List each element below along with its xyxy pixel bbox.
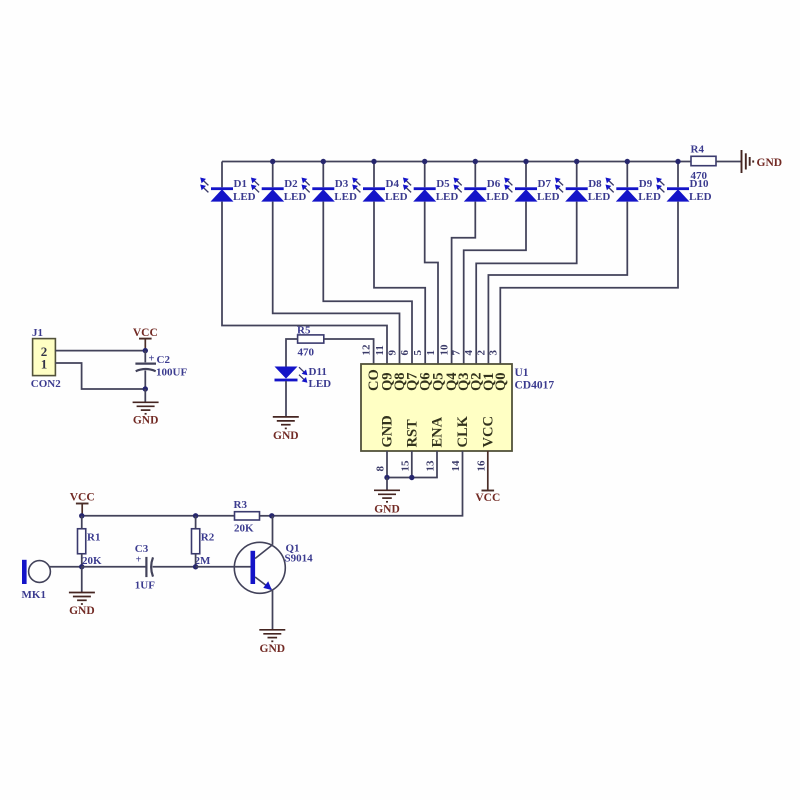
LED D5 (403, 162, 436, 202)
wire (D4 anode to U1 pin 5) (374, 202, 425, 364)
op IC U1 CD4017 (361, 364, 512, 451)
svg-text:GND: GND (273, 430, 299, 442)
microphone MK1 (22, 560, 27, 584)
LED D9 (606, 162, 639, 202)
svg-text:C3: C3 (135, 543, 149, 555)
svg-text:GND: GND (69, 605, 95, 617)
LED D6 (454, 162, 487, 202)
LED D3 (302, 162, 335, 202)
svg-text:LED: LED (689, 191, 712, 203)
node (rail junction D10) (675, 159, 680, 164)
ground (top right, sideways) (742, 150, 754, 173)
svg-text:Q0: Q0 (493, 372, 509, 391)
node (rail junction D3) (321, 159, 326, 164)
wire (VCC node to C2) (144, 351, 146, 363)
resistor R3 (235, 512, 260, 520)
resistor R1 (78, 529, 86, 554)
node (rail junction D9) (625, 159, 630, 164)
resistor R4 (691, 156, 716, 165)
svg-text:1: 1 (41, 357, 48, 372)
ground (mic bias) (81, 567, 83, 593)
LED D8 (555, 162, 588, 202)
node B (C2-/J1 pin1) (143, 386, 148, 391)
svg-text:RST: RST (404, 419, 420, 448)
node (rail junction D7) (523, 159, 528, 164)
svg-text:LED: LED (638, 191, 661, 203)
resistor R2 (192, 529, 200, 554)
wire (pin 13 to pin 8 tie) (387, 451, 437, 478)
wire (D5 anode to U1 pin 1) (425, 202, 438, 364)
LED D1 (200, 162, 233, 202)
svg-text:VCC: VCC (475, 492, 500, 504)
LED D7 (504, 162, 537, 202)
svg-text:ENA: ENA (430, 416, 446, 447)
svg-text:11: 11 (374, 345, 386, 355)
wire (D6 anode to U1 pin 10) (452, 202, 476, 364)
wire (C3 to R2 node) (153, 566, 196, 568)
wire (D3 anode to U1 pin 6) (323, 202, 412, 364)
power VCC (pin 16) (487, 451, 489, 491)
svg-text:D3: D3 (335, 178, 349, 190)
svg-text:VCC: VCC (70, 491, 95, 503)
svg-text:GND: GND (380, 415, 396, 447)
power VCC (bias rail) (76, 503, 89, 505)
svg-text:S9014: S9014 (285, 552, 314, 564)
node (rail junction D4) (371, 159, 376, 164)
node A (VCC/C2+) (143, 348, 148, 353)
ground (D11) (273, 417, 299, 429)
wire (R4 to GND) (716, 161, 741, 163)
svg-text:D9: D9 (639, 178, 653, 190)
wire (R1 to signal) (81, 554, 83, 567)
wire (R5 to D11) (286, 339, 298, 367)
svg-text:7: 7 (451, 350, 463, 356)
wire (R5 to U1 pin 12) (324, 339, 374, 364)
svg-text:3: 3 (487, 350, 499, 356)
wire (to C3) (82, 566, 146, 568)
svg-text:LED: LED (588, 191, 611, 203)
wire (D10 anode to U1 pin 3) (500, 202, 678, 364)
svg-text:10: 10 (439, 344, 451, 356)
svg-text:+: + (136, 555, 142, 566)
node (rail junction D5) (422, 159, 427, 164)
svg-text:R1: R1 (87, 531, 100, 543)
wire (R2 to signal) (195, 554, 197, 567)
node (pin 8 junction) (384, 475, 389, 480)
svg-text:D2: D2 (284, 178, 298, 190)
ground (C2) (133, 402, 159, 414)
node (R1/mic junction) (79, 564, 84, 569)
svg-text:470: 470 (298, 347, 315, 359)
svg-text:CD4017: CD4017 (515, 380, 555, 392)
svg-text:GND: GND (133, 414, 159, 426)
wire (MK1 to R1 node) (49, 566, 81, 568)
wire (D7 anode to U1 pin 7) (464, 202, 526, 364)
wire (J1 pin1 to C2 bottom) (55, 363, 145, 389)
svg-text:R4: R4 (691, 144, 705, 156)
node (collector junction) (269, 513, 274, 518)
svg-text:LED: LED (486, 191, 509, 203)
node (pin 15 junction) (409, 475, 414, 480)
wire (LED cathode rail) (222, 161, 691, 163)
wire (D1 anode to U1 pin 11) (222, 202, 387, 364)
power VCC (J1) (139, 338, 152, 340)
node (rail/R2) (193, 513, 198, 518)
LED D2 (251, 162, 284, 202)
svg-text:D5: D5 (436, 178, 450, 190)
wire (D9 anode to U1 pin 2) (488, 202, 627, 364)
svg-text:1UF: 1UF (135, 579, 155, 591)
svg-text:R2: R2 (201, 531, 215, 543)
svg-text:2: 2 (475, 350, 487, 356)
svg-text:LED: LED (309, 378, 332, 390)
wire (R3 to collector node) (260, 515, 272, 517)
svg-text:LED: LED (284, 191, 307, 203)
connector J1 (33, 339, 56, 376)
wire (C2 to ground) (144, 371, 146, 390)
wire (pin 8 to ground) (386, 478, 388, 491)
svg-text:C2: C2 (157, 354, 171, 366)
svg-text:LED: LED (537, 191, 560, 203)
wire (pin 15 stub) (411, 451, 413, 478)
svg-text:5: 5 (412, 350, 424, 356)
svg-text:MK1: MK1 (22, 589, 46, 601)
svg-text:LED: LED (334, 191, 357, 203)
svg-text:8: 8 (375, 466, 387, 472)
svg-text:15: 15 (399, 460, 411, 472)
wire (D8 anode to U1 pin 4) (476, 202, 577, 364)
svg-text:GND: GND (374, 504, 400, 516)
svg-text:D1: D1 (234, 178, 247, 190)
ground (U1 pin 8) (374, 490, 400, 502)
svg-text:4: 4 (463, 350, 475, 356)
wire (rail to R1) (81, 516, 83, 529)
svg-text:D4: D4 (386, 178, 400, 190)
capacitor C3 (146, 557, 153, 577)
svg-text:R5: R5 (297, 325, 311, 337)
wire (D11 to ground) (285, 381, 287, 417)
svg-text:VCC: VCC (480, 416, 496, 447)
svg-text:9: 9 (387, 350, 399, 356)
svg-text:CLK: CLK (455, 415, 471, 447)
node (rail junction D8) (574, 159, 579, 164)
svg-text:J1: J1 (32, 327, 43, 339)
wire (pin 14 CLK down) (272, 451, 463, 516)
svg-text:100UF: 100UF (156, 367, 187, 379)
svg-text:GND: GND (757, 157, 783, 169)
svg-text:1: 1 (425, 350, 437, 356)
svg-text:D6: D6 (487, 178, 501, 190)
resistor R5 (298, 335, 324, 343)
wire (to Q1 base) (196, 566, 251, 568)
LED D4 (352, 162, 385, 202)
svg-text:R3: R3 (234, 499, 248, 511)
wire (collector) (272, 516, 274, 545)
svg-text:D7: D7 (538, 178, 552, 190)
LED D11 (275, 367, 308, 383)
node (rail junction D6) (473, 159, 478, 164)
transistor Q1 (234, 542, 285, 593)
wire (D2 anode to U1 pin 9) (273, 202, 400, 364)
svg-text:D11: D11 (309, 366, 327, 378)
svg-text:LED: LED (385, 191, 408, 203)
svg-text:+: + (149, 354, 155, 365)
ground (emitter) (259, 630, 285, 642)
wire (rail to R2) (195, 516, 197, 529)
svg-text:D8: D8 (588, 178, 602, 190)
wire (emitter to ground) (272, 590, 274, 630)
node (R2/base junction) (193, 564, 198, 569)
svg-text:20K: 20K (234, 522, 254, 534)
svg-text:VCC: VCC (133, 327, 158, 339)
wire (J1 pin2 to VCC node) (55, 350, 145, 352)
svg-text:U1: U1 (515, 367, 529, 379)
svg-text:LED: LED (233, 191, 256, 203)
svg-text:14: 14 (450, 460, 462, 472)
svg-text:LED: LED (436, 191, 459, 203)
svg-text:GND: GND (260, 643, 286, 655)
svg-text:6: 6 (399, 350, 411, 356)
LED D10 (656, 162, 689, 202)
svg-text:13: 13 (425, 460, 437, 472)
svg-text:CON2: CON2 (31, 378, 61, 390)
svg-text:16: 16 (475, 460, 487, 472)
wire (pin 8 stub) (386, 451, 388, 478)
node (VCC rail) (79, 513, 84, 518)
svg-text:20K: 20K (82, 555, 102, 567)
node (rail junction D2) (270, 159, 275, 164)
wire (VCC rail to R3) (82, 515, 235, 517)
capacitor C2 (135, 364, 156, 372)
svg-text:D10: D10 (690, 178, 709, 190)
svg-text:12: 12 (361, 344, 373, 356)
